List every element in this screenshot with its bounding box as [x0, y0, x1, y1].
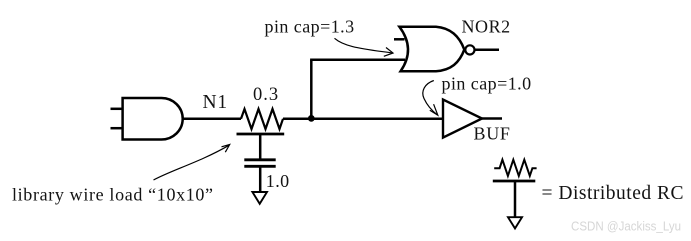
legend plate bar	[493, 180, 536, 183]
wire plate to capacitor	[259, 134, 262, 160]
capacitor 1.0 top plate	[244, 158, 275, 161]
AND input stub 2	[111, 127, 123, 130]
legend ground symbol	[508, 217, 522, 228]
svg-text:pin cap=1.3: pin cap=1.3	[265, 16, 355, 36]
ground symbol	[252, 192, 267, 204]
legend wire to ground	[514, 181, 517, 217]
svg-text:NOR2: NOR2	[462, 16, 511, 36]
wire junction to BUF input	[283, 118, 443, 121]
NOR top input stub	[394, 38, 405, 41]
NOR output wire	[474, 48, 499, 51]
arrow pin cap=1.3 to NOR	[335, 38, 392, 53]
AND input stub 1	[111, 108, 123, 111]
resistor 0.3 (distributed wire R)	[241, 109, 283, 129]
wire capacitor to ground	[259, 166, 262, 192]
buffer BUF	[443, 100, 482, 138]
svg-text:0.3: 0.3	[253, 85, 279, 105]
svg-text:CSDN @Jackiss_Lyu: CSDN @Jackiss_Lyu	[571, 220, 681, 234]
capacitor 1.0 bottom plate	[244, 165, 275, 168]
legend resistor symbol	[494, 160, 536, 176]
junction node	[308, 115, 315, 122]
arrow pin cap=1.0 to BUF input	[423, 81, 437, 115]
wire net N1: AND output to resistor	[183, 118, 242, 121]
wire junction up	[310, 60, 313, 119]
svg-text:= Distributed RC: = Distributed RC	[542, 183, 685, 204]
NOR gate NOR2	[399, 27, 464, 71]
svg-text:library wire load “10x10”: library wire load “10x10”	[12, 184, 214, 204]
wire to NOR input	[310, 59, 405, 62]
svg-text:BUF: BUF	[474, 124, 511, 144]
arrow library wire load to resistor	[154, 145, 230, 180]
BUF output wire	[482, 117, 502, 120]
NOR output bubble	[465, 45, 474, 54]
svg-text:pin cap=1.0: pin cap=1.0	[442, 74, 532, 94]
distributed RC plate bar	[237, 133, 285, 136]
svg-text:1.0: 1.0	[266, 171, 290, 191]
svg-text:N1: N1	[203, 92, 228, 113]
AND gate	[123, 98, 183, 140]
